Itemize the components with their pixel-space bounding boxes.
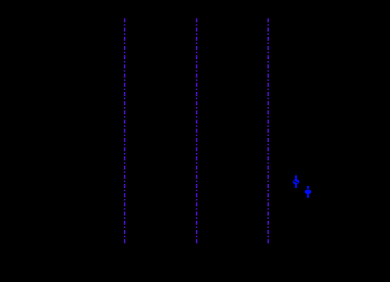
vertical dash-dot line 2	[196, 18, 198, 243]
error bar point 2	[307, 186, 309, 198]
dark seam inside marker 1	[293, 181, 298, 183]
vertical dash-dot line 3	[267, 18, 269, 243]
dark notch at top of marker 2	[307, 189, 309, 191]
vertical dash-dot line 1	[124, 18, 126, 243]
error bar point 1	[295, 175, 297, 188]
